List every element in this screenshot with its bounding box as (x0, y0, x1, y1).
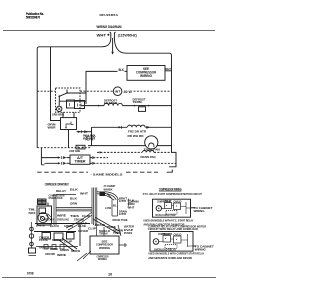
svg-text:RD W: RD W (86, 138, 94, 142)
wire: box to right bus (165, 70, 172, 72)
label FRZ DR HTR (128, 130, 147, 134)
lower pictorial structures (34, 224, 91, 262)
header rule (3, 30, 215, 32)
svg-text:WIRE: WIRE (57, 253, 66, 257)
interior light row dashed (37, 90, 171, 92)
A/T timer box (70, 155, 90, 164)
A/T timer right connectors bottom (90, 162, 176, 165)
svg-text:TUBE: TUBE (113, 232, 121, 235)
svg-text:RELAY: RELAY (165, 200, 172, 203)
svg-text:BLK: BLK (70, 196, 77, 200)
harness diagonal to box (93, 218, 120, 234)
svg-text:40 W: 40 W (124, 90, 133, 94)
box lead right (119, 243, 127, 247)
evap fan row (88, 145, 172, 147)
svg-text:WIRING: WIRING (99, 246, 111, 250)
defrost heater coil (104, 103, 122, 105)
svg-text:WHT: WHT (128, 206, 136, 209)
horizontal wire bundle (56, 208, 92, 211)
control inner box (59, 100, 86, 109)
svg-text:OVLD: OVLD (174, 233, 182, 236)
wire: left bus (36, 49, 38, 148)
power plug P1 (107, 32, 115, 38)
defrost thermostat (134, 105, 150, 112)
svg-text:WIRE: WIRE (57, 214, 67, 217)
page number (108, 272, 112, 276)
see compressor wiring box (pictorial) (90, 236, 119, 254)
svg-text:INT: INT (115, 89, 121, 93)
svg-text:ORN: ORN (70, 201, 77, 205)
lower pictorial labels (39, 236, 80, 257)
label ORN WHR (52, 112, 65, 116)
svg-text:OVLD: OVLD (174, 201, 182, 204)
svg-text:TML: TML (29, 209, 37, 212)
svg-text:RUN CAPACITOR: RUN CAPACITOR (156, 213, 176, 217)
bundle labels right (104, 188, 140, 222)
svg-text:BL: BL (113, 204, 118, 207)
bundle labels left (70, 191, 88, 205)
svg-text:WIRING: WIRING (98, 257, 107, 261)
svg-text:DRAIN PAN: DRAIN PAN (141, 155, 156, 159)
defrost heater row (81, 105, 172, 107)
label BLK (119, 68, 125, 72)
model number (100, 13, 119, 17)
riser double line (54, 194, 76, 225)
svg-text:CLIP: CLIP (82, 215, 91, 218)
labels above defrost heater (104, 99, 118, 106)
compressor relay striped box (38, 199, 47, 205)
wire: feed to control (51, 47, 61, 121)
title WIRING DIAGRAM (97, 25, 122, 29)
same models separator (37, 170, 172, 177)
interior light (113, 87, 122, 96)
svg-text:RELAY: RELAY (163, 233, 170, 236)
svg-text:WBR: WBR (48, 125, 57, 129)
harness lower sweep (66, 212, 92, 230)
svg-text:OVERLOAD: OVERLOAD (49, 196, 63, 200)
label WHT (left of plug) (97, 34, 108, 38)
svg-text:RELAY: RELAY (56, 189, 66, 193)
svg-text:TRAY: TRAY (99, 233, 109, 236)
ground lead with arrow (111, 38, 114, 55)
right link wire (169, 152, 176, 166)
note above box 2 (148, 225, 207, 232)
svg-text:WIRING: WIRING (140, 74, 152, 78)
evap fan motor M1 (145, 136, 158, 149)
cabinet connector block (100, 192, 106, 197)
svg-text:DRAIN TUBE: DRAIN TUBE (113, 218, 128, 222)
labels above pictorial box (29, 200, 136, 236)
svg-text:GREEN: GREEN (64, 224, 73, 228)
label EVAP FAN (144, 148, 160, 152)
svg-text:PAN: PAN (124, 232, 132, 235)
control dashed box (cold control) (56, 88, 81, 112)
footer rule (2, 276, 216, 278)
svg-text:- SAME MODELS: - SAME MODELS (91, 173, 123, 177)
wires into pictorial box (97, 225, 122, 236)
labels above compressor (49, 187, 79, 199)
svg-text:BLACK: BLACK (50, 224, 59, 228)
lower pictorial left column (29, 222, 37, 256)
publication number text (26, 12, 44, 19)
svg-text:COMPRESSOR WIRING: COMPRESSOR WIRING (159, 187, 182, 191)
svg-text:TIES: TIES (70, 215, 80, 218)
svg-text:PLATE: PLATE (39, 238, 48, 242)
label 40 W (124, 90, 133, 94)
lead to cabinet wiring 1 (191, 207, 195, 209)
svg-text:WIRE: WIRE (50, 247, 58, 251)
svg-text:WIRING: WIRING (194, 209, 206, 213)
cold control switch (58, 90, 86, 102)
label ORN / WBR (48, 122, 57, 129)
svg-text:OVERLOAD: OVERLOAD (57, 218, 69, 222)
svg-text:10: 10 (108, 272, 112, 276)
label to cabinet wiring 1 (194, 206, 213, 213)
svg-text:HEATER: HEATER (104, 101, 118, 105)
freezer door heater coil (128, 125, 146, 127)
labels above defrost thermostat (133, 97, 146, 104)
svg-text:WHT: WHT (165, 67, 171, 71)
pictorial title (45, 183, 69, 187)
defrost relay box (61, 112, 77, 147)
svg-text:5995209670: 5995209670 (26, 15, 40, 19)
svg-text:RELAY: RELAY (44, 218, 54, 222)
svg-text:WHITE: WHITE (36, 224, 45, 228)
detail title underlined (159, 187, 182, 191)
svg-text:BLK: BLK (119, 68, 125, 72)
svg-text:SCREW: SCREW (71, 249, 80, 253)
caption 2 (148, 252, 204, 260)
label to cabinet wiring 2 (195, 245, 214, 252)
svg-text:CLIP: CLIP (64, 240, 72, 244)
svg-text:CLIP: CLIP (88, 227, 96, 231)
drain structure (112, 199, 131, 217)
drain pan heater coil (143, 151, 154, 153)
page code (27, 271, 34, 275)
compressor body (37, 199, 52, 225)
svg-text:WIRING DIAGRAM: WIRING DIAGRAM (97, 25, 122, 29)
compressor reference box (127, 66, 165, 81)
relay output lead with connectors (77, 130, 92, 133)
mid pictorial labels (36, 214, 96, 230)
svg-text:COVER: COVER (78, 230, 88, 233)
svg-text:(115V/60HZ): (115V/60HZ) (118, 34, 137, 38)
A/T timer row bottom left (41, 162, 70, 165)
label DRAIN PAN (141, 155, 156, 159)
svg-text:LOW: LOW (105, 206, 111, 210)
A/T timer right connectors top (90, 156, 108, 159)
svg-text:DRAIN: DRAIN (95, 224, 105, 227)
detail box 2 (150, 232, 193, 252)
note line 1 (143, 192, 202, 196)
svg-text:WHT: WHT (97, 34, 108, 38)
svg-text:OVERLOAD RELAY: OVERLOAD RELAY (154, 247, 176, 251)
svg-text:HTR: HTR (119, 199, 126, 203)
svg-text:6798: 6798 (27, 271, 34, 275)
drain pan heater row dashed (97, 151, 172, 153)
svg-text:CIRCUIT WITH RELAY AND OVERLOA: CIRCUIT WITH RELAY AND OVERLOAD (148, 227, 198, 231)
svg-text:TERM.: TERM. (133, 100, 143, 104)
thermostat bulb (57, 101, 62, 111)
label under connector (69, 149, 81, 153)
wire: right bus (171, 56, 173, 153)
wire: BLK lead to compressor box (86, 71, 127, 101)
svg-text:RD WH RD: RD WH RD (128, 134, 144, 138)
svg-text:BOX: BOX (29, 212, 37, 215)
label WHT (box output) (165, 67, 171, 71)
wire bundle verticals (92, 188, 97, 227)
svg-text:TIMER: TIMER (75, 160, 87, 164)
wire: right supply (114, 38, 171, 56)
svg-text:DFU21M7A: DFU21M7A (100, 13, 119, 17)
svg-text:GREEN: GREEN (60, 248, 69, 252)
label WH RD / RD WH (83, 133, 96, 140)
svg-text:AND SEPARATE OVERLOAD DEVICE: AND SEPARATE OVERLOAD DEVICE (148, 256, 192, 260)
svg-text:WH/BK: WH/BK (104, 188, 113, 192)
svg-text:BLK: BLK (70, 187, 78, 191)
svg-text:LOW AMB: LOW AMB (69, 149, 81, 153)
caption 1 (143, 219, 193, 227)
harness elbow to drain riser (97, 192, 118, 200)
label below pictorial box (97, 254, 109, 261)
lead to cabinet wiring 2 (193, 245, 196, 247)
detail box 1 (153, 199, 191, 217)
svg-text:GROUND: GROUND (45, 252, 55, 256)
svg-text:COMPRESSOR COMPARTMENT: COMPRESSOR COMPARTMENT (45, 183, 69, 187)
svg-text:SCREW: SCREW (52, 238, 61, 242)
labels above evap fan row (86, 134, 144, 142)
freezer door heater row (92, 126, 172, 129)
svg-text:WHT: WHT (80, 191, 88, 195)
label 115V/60HZ (right of plug) (118, 34, 137, 38)
lower-left dashed row (37, 145, 91, 149)
svg-text:EVAP: EVAP (78, 223, 88, 226)
svg-text:P.T.C. RELAY START COMPRESSOR: P.T.C. RELAY START COMPRESSOR MOTOR CIRC… (143, 192, 202, 196)
left lower vertical (40, 148, 42, 165)
wire: junction vertical (91, 127, 93, 145)
A/T timer row top (41, 156, 70, 159)
svg-text:HTR: HTR (119, 212, 126, 216)
label at cabinet (104, 184, 116, 188)
wire: left supply (37, 38, 111, 49)
